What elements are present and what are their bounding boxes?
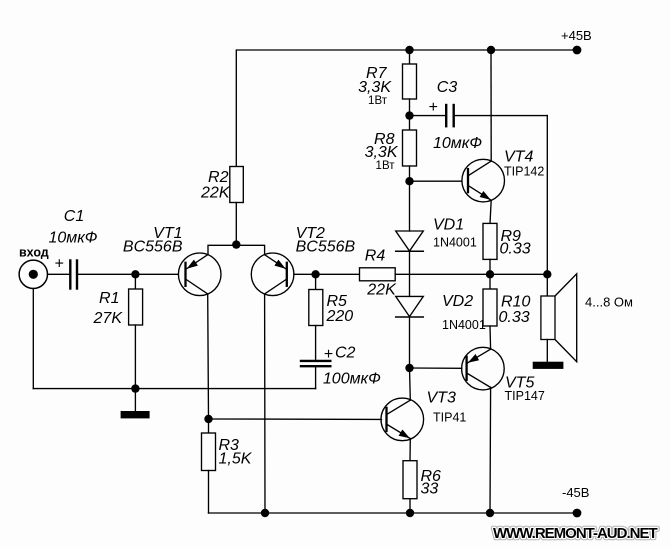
svg-text:R10: R10 bbox=[501, 294, 530, 311]
svg-text:1N4001: 1N4001 bbox=[433, 236, 477, 250]
svg-text:WWW.REMONT-AUD.NET: WWW.REMONT-AUD.NET bbox=[493, 525, 657, 542]
diode VD2 1N4001 bbox=[396, 293, 486, 332]
wire node to VT5 base bbox=[410, 367, 462, 369]
wire top +45V rail bbox=[236, 50, 577, 167]
node R7/R8/C3 bbox=[405, 111, 413, 119]
svg-text:22K: 22K bbox=[200, 185, 231, 202]
node VT1 collector/R3/VT3 base bbox=[204, 415, 212, 423]
svg-text:22K: 22K bbox=[366, 282, 397, 299]
capacitor C1 10мкФ bbox=[48, 208, 97, 289]
node VD2/VT3 collector/VT5 base bbox=[405, 364, 413, 372]
wire VD2 to node bbox=[409, 317, 411, 368]
watermark WWW.REMONT-AUD.NET bbox=[493, 525, 657, 542]
svg-text:VD1: VD1 bbox=[433, 217, 464, 234]
svg-text:10мкФ: 10мкФ bbox=[48, 230, 97, 247]
wire C3 down to output node bbox=[546, 116, 548, 275]
svg-text:0.33: 0.33 bbox=[499, 309, 530, 326]
svg-text:33: 33 bbox=[421, 481, 439, 498]
wire VT2 collector down bbox=[264, 294, 266, 513]
svg-text:R4: R4 bbox=[365, 248, 386, 265]
svg-text:1,5K: 1,5K bbox=[219, 451, 253, 468]
svg-text:вход: вход bbox=[19, 246, 49, 260]
svg-text:C3: C3 bbox=[437, 79, 458, 96]
svg-text:R1: R1 bbox=[99, 290, 119, 307]
node VT2 base/R5/R4 bbox=[311, 270, 319, 278]
node rail/R6 bbox=[406, 509, 414, 517]
resistor R3 1,5K bbox=[202, 419, 253, 513]
svg-text:27K: 27K bbox=[93, 310, 124, 327]
wire input down to ground bus bbox=[32, 289, 34, 389]
wire VT3 collector up to node bbox=[409, 368, 412, 400]
svg-text:+: + bbox=[324, 346, 333, 363]
resistor R5 220 bbox=[309, 274, 353, 360]
node junction rail/R7 bbox=[405, 46, 413, 54]
wire node to VT3 base bbox=[209, 418, 382, 420]
svg-text:100мкФ: 100мкФ bbox=[323, 371, 381, 388]
node rail/VT2 collector bbox=[261, 509, 269, 517]
svg-text:3,3K: 3,3K bbox=[358, 79, 392, 96]
node VT1/VT2 common emitters bbox=[208, 240, 265, 254]
terminal -45В bbox=[562, 485, 589, 517]
resistor R2 bbox=[200, 167, 243, 203]
svg-text:BC556B: BC556B bbox=[123, 239, 183, 256]
input connector вход bbox=[19, 246, 49, 289]
resistor R6 33 bbox=[403, 439, 441, 513]
svg-text:VD2: VD2 bbox=[442, 293, 473, 310]
svg-text:VT3: VT3 bbox=[427, 390, 456, 407]
svg-text:BC556B: BC556B bbox=[296, 239, 356, 256]
svg-text:0.33: 0.33 bbox=[500, 241, 531, 258]
transistor VT1 BC556B bbox=[123, 225, 221, 296]
resistor R8 3,3K 1Вт bbox=[365, 116, 417, 182]
node rail/VT5 collector bbox=[486, 509, 494, 517]
svg-text:+45В: +45В bbox=[561, 28, 592, 43]
wire VT2 base to node bbox=[294, 273, 360, 275]
capacitor C3 10мкФ bbox=[410, 79, 548, 152]
transistor VT2 BC556B bbox=[251, 225, 355, 296]
speaker 4...8 Ом bbox=[541, 274, 633, 362]
wire output R4 to speaker line bbox=[395, 273, 547, 275]
wire input to C1 bbox=[48, 273, 71, 275]
wire VT5 collector down bbox=[489, 387, 492, 513]
wire ground bus bbox=[33, 388, 315, 390]
transistor VT3 TIP41 bbox=[381, 390, 466, 441]
wire VT1 collector down bbox=[207, 294, 210, 419]
capacitor C2 100мкФ bbox=[301, 345, 381, 388]
svg-text:TIP147: TIP147 bbox=[505, 389, 545, 403]
svg-text:4...8 Ом: 4...8 Ом bbox=[585, 295, 633, 310]
wire VD1 to VD2 bbox=[409, 251, 411, 296]
svg-text:10мкФ: 10мкФ bbox=[433, 135, 482, 152]
node junction rail/VT4 collector bbox=[487, 46, 495, 54]
svg-text:VT4: VT4 bbox=[504, 149, 533, 166]
wire C1 to VT1 base bbox=[77, 273, 178, 275]
resistor R1 27K bbox=[93, 274, 143, 388]
node R8/VD1/VT4 base bbox=[405, 177, 413, 185]
terminal +45В bbox=[561, 28, 592, 54]
wire R2 bottom to emitter node bbox=[235, 203, 237, 246]
resistor R10 0.33 bbox=[483, 274, 530, 349]
ground symbol bbox=[121, 389, 150, 419]
resistor R7 3,3K 1Вт bbox=[358, 50, 416, 116]
svg-text:3,3K: 3,3K bbox=[365, 144, 399, 161]
node output R9/R10 bbox=[486, 270, 494, 278]
svg-text:+: + bbox=[428, 99, 437, 116]
transistor VT4 TIP142 bbox=[462, 149, 544, 202]
resistor R9 0.33 bbox=[483, 200, 531, 274]
svg-text:1N4001: 1N4001 bbox=[442, 318, 486, 332]
node output/speaker bbox=[543, 270, 551, 278]
svg-text:R2: R2 bbox=[208, 169, 229, 186]
wire C2 to bus bbox=[315, 366, 317, 388]
diode VD1 1N4001 bbox=[396, 181, 477, 251]
svg-text:1Вт: 1Вт bbox=[368, 95, 388, 107]
svg-text:C2: C2 bbox=[335, 345, 356, 362]
ground under speaker bbox=[533, 362, 564, 369]
node C1/R1/VT1 base bbox=[131, 270, 139, 278]
svg-text:TIP142: TIP142 bbox=[504, 165, 544, 179]
svg-text:-45В: -45В bbox=[562, 485, 589, 500]
svg-text:C1: C1 bbox=[64, 208, 84, 225]
svg-text:TIP41: TIP41 bbox=[433, 411, 466, 425]
resistor R4 22K bbox=[360, 248, 398, 299]
node bus/R1 bbox=[131, 384, 139, 392]
svg-text:1Вт: 1Вт bbox=[376, 160, 396, 172]
wire VT4 collector up bbox=[490, 50, 492, 161]
transistor VT5 TIP147 bbox=[462, 347, 545, 403]
wire bottom -45V rail bbox=[209, 512, 578, 514]
svg-text:+: + bbox=[54, 256, 63, 273]
svg-text:220: 220 bbox=[326, 308, 354, 325]
wire R8 node to VT4 base bbox=[410, 180, 462, 182]
